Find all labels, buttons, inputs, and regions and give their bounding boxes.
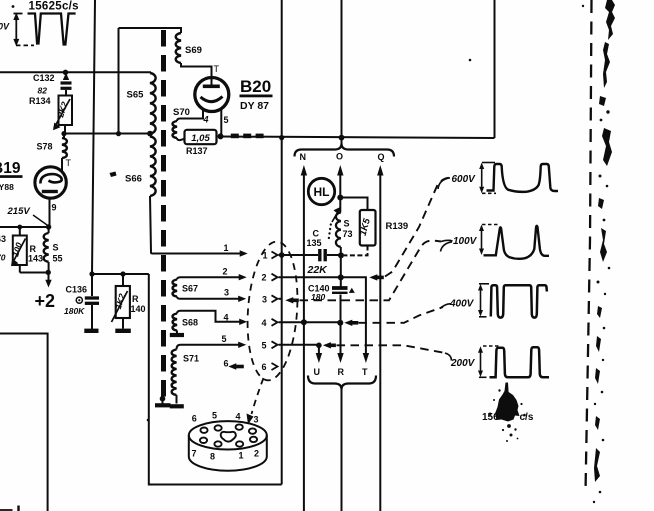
- node row2 O line: [338, 274, 344, 280]
- wire Q line: [379, 176, 381, 511]
- socket center key: [221, 432, 236, 442]
- waveform 400V trace: [491, 285, 547, 317]
- svg-text:R: R: [338, 367, 345, 377]
- svg-text:S: S: [53, 243, 59, 253]
- capacitor C140 polarity triangle: [349, 288, 355, 293]
- arrowhead +2 down: [45, 280, 51, 288]
- wire O R line upper: [339, 176, 341, 213]
- ground bar core: [155, 403, 171, 407]
- waveform 15625c/s top-left: [28, 14, 76, 45]
- svg-text:1: 1: [224, 243, 229, 253]
- svg-text:4: 4: [203, 115, 209, 125]
- resistor R140 leads: [122, 274, 124, 329]
- svg-text:C: C: [313, 229, 320, 239]
- svg-text:O: O: [336, 152, 343, 162]
- svg-text:DY 87: DY 87: [240, 100, 269, 112]
- arrowhead N up: [301, 165, 307, 176]
- waveform 200V bracket: [479, 346, 499, 377]
- arrowhead R143 pot: [11, 259, 19, 267]
- node C132 junction: [63, 70, 68, 75]
- arrowhead 200V bracket: [478, 346, 483, 353]
- svg-text:200V: 200V: [450, 358, 476, 369]
- waveform 600V label hook: [438, 178, 450, 189]
- inductor S73: [336, 213, 341, 247]
- ground bar C136: [84, 329, 98, 333]
- svg-text:N: N: [300, 152, 307, 162]
- arrowhead C132 up: [63, 73, 69, 80]
- svg-text:R134: R134: [29, 96, 51, 106]
- inductor S55: [44, 233, 49, 262]
- wire vertical x341.5: [341, 0, 343, 144]
- wire row4: [279, 321, 341, 323]
- svg-text:9: 9: [52, 203, 57, 213]
- svg-text:2: 2: [223, 267, 228, 277]
- node core bottom: [160, 396, 166, 402]
- S73 adjust arrow shaft: [332, 210, 339, 222]
- svg-text:70: 70: [0, 253, 6, 263]
- tube B19 anode bar: [42, 190, 58, 193]
- waveform 100V label hook: [441, 242, 453, 252]
- waveform 100V trace: [484, 226, 550, 259]
- label 215V pointer: [33, 215, 49, 226]
- resistor R134: [59, 96, 73, 126]
- svg-text:6: 6: [262, 362, 267, 372]
- wire 1K5 bottom: [344, 246, 368, 256]
- bottom-left corner box fragment: [0, 509, 13, 511]
- wire row3 stub: [279, 298, 282, 300]
- waveform 600V bracket: [482, 163, 496, 194]
- svg-text:3: 3: [262, 294, 267, 304]
- wire row5: [279, 345, 319, 354]
- node R134 bottom: [61, 131, 66, 136]
- scan speck mid: [147, 419, 150, 422]
- svg-text:4: 4: [236, 412, 241, 422]
- svg-text:100V: 100V: [453, 236, 478, 247]
- arrowhead bracket top-left up: [13, 13, 19, 21]
- inductor S67: [173, 280, 178, 297]
- scan speck left of S66: [110, 172, 117, 178]
- svg-text:1,05: 1,05: [191, 133, 210, 144]
- svg-text:U: U: [314, 367, 321, 377]
- arrowhead pointer row5 left: [323, 342, 331, 348]
- arrowhead bracket top-left down: [13, 39, 19, 47]
- svg-text:2K2: 2K2: [55, 100, 69, 119]
- wire row4 S68 top jog: [181, 311, 240, 322]
- svg-text:400V: 400V: [449, 299, 475, 310]
- brace U R T: [308, 376, 376, 390]
- waveform 600V trace: [487, 164, 559, 192]
- wire row2 S67 top: [181, 276, 240, 278]
- svg-text:6: 6: [192, 414, 197, 424]
- svg-text:600V: 600V: [452, 174, 477, 185]
- scan speck top-left: [12, 5, 15, 8]
- lamp HL: [308, 178, 334, 204]
- arrowhead R134 pot: [53, 123, 61, 131]
- arrowhead row2 right: [239, 274, 247, 280]
- wire S71 bottom: [176, 395, 178, 404]
- wire vertical x281.7: [281, 0, 283, 485]
- ink blot 15625: [495, 383, 520, 422]
- ground bar S68: [170, 333, 184, 337]
- ink blot splatter dots: [489, 413, 492, 416]
- svg-text:1: 1: [239, 451, 244, 461]
- svg-text:6: 6: [224, 359, 229, 369]
- ground bar S71: [170, 404, 184, 408]
- tube B20 anode bar: [203, 85, 220, 89]
- inductor S70: [173, 121, 178, 138]
- arrowhead S73 adjust: [334, 207, 341, 215]
- svg-text:5: 5: [222, 334, 227, 344]
- svg-text:156: 156: [482, 412, 499, 423]
- ground bar R140: [115, 329, 131, 333]
- svg-text:180: 180: [311, 292, 325, 302]
- node row4 O line: [337, 320, 343, 326]
- svg-text:5: 5: [262, 340, 267, 350]
- dashed pointer 200V: [337, 345, 449, 353]
- wire row1 right of oval: [279, 254, 319, 256]
- arrow +2 shaft: [48, 273, 50, 282]
- svg-text:1: 1: [263, 251, 268, 261]
- arrowhead R down: [337, 353, 343, 363]
- arrowhead pointer row4 left: [344, 320, 352, 326]
- waveform 400V bracket: [479, 284, 489, 317]
- svg-text:215V: 215V: [7, 206, 31, 217]
- arrowhead row1 right: [240, 250, 248, 256]
- wire R134 to node: [64, 125, 66, 134]
- node R137 right pin5: [218, 133, 224, 139]
- svg-text:c/s: c/s: [520, 412, 534, 423]
- node HL bottom O line: [337, 195, 343, 201]
- arrowhead socket pointer: [247, 414, 254, 425]
- tube B20 pin5 lead: [220, 108, 222, 137]
- svg-text:3: 3: [254, 415, 259, 425]
- svg-text:T: T: [362, 367, 368, 377]
- svg-text:5: 5: [212, 411, 217, 421]
- capacitor C136: [91, 274, 93, 296]
- arrowhead Q up: [377, 165, 383, 176]
- svg-text:C136: C136: [66, 285, 88, 295]
- node x281.7 y137.6: [279, 135, 284, 140]
- svg-text:HL: HL: [314, 185, 330, 199]
- node row1 O line: [338, 252, 344, 258]
- tube B19 cathode curl: [40, 174, 61, 183]
- svg-text:S68: S68: [182, 318, 198, 328]
- waveform 100V bracket: [482, 225, 500, 252]
- svg-text:8: 8: [210, 452, 215, 462]
- capacitor C132: [61, 83, 72, 88]
- node y227 x48.6: [46, 224, 51, 229]
- svg-text:R137: R137: [186, 146, 208, 156]
- arrowhead T down: [363, 353, 369, 363]
- arrow row6 left: [228, 363, 236, 369]
- inductor S68: [173, 314, 178, 331]
- dashed pointer 600V: [385, 178, 450, 277]
- wire vertical x494.5: [494, 0, 496, 138]
- svg-text:0V: 0V: [0, 22, 10, 32]
- wire bottom-left corner: [0, 334, 48, 511]
- arrowhead row3 right: [238, 296, 246, 302]
- svg-text:3: 3: [224, 288, 229, 298]
- svg-text:4: 4: [224, 313, 229, 323]
- inductor S78: [62, 138, 67, 158]
- wire top-left horizontal to S65: [0, 71, 151, 73]
- node R140 top: [120, 271, 125, 276]
- resistor R140: [116, 286, 130, 318]
- wire top box to S69: [119, 28, 182, 33]
- arrowhead 600V bracket: [479, 163, 484, 170]
- svg-text:S70: S70: [173, 107, 190, 118]
- page edge marks cluster: [605, 0, 615, 40]
- node row1 x281.7: [279, 252, 285, 258]
- wire B20 pin4 to S70: [177, 109, 203, 122]
- svg-text:4: 4: [262, 318, 267, 328]
- wire O R line lower: [340, 295, 342, 354]
- svg-text:140: 140: [131, 304, 146, 314]
- wire row5 S71 top: [181, 344, 239, 346]
- resistor R143 leads: [20, 227, 49, 273]
- inductor S65: [150, 73, 156, 134]
- svg-text:S69: S69: [185, 45, 202, 56]
- node S65 bottom: [147, 131, 153, 137]
- svg-text:82: 82: [38, 86, 48, 96]
- capacitor C135: [320, 249, 325, 261]
- svg-text:R: R: [132, 294, 139, 304]
- wire vertical from top edge x95: [92, 0, 95, 274]
- inductor S66: [150, 137, 156, 196]
- connector oval dashed: [243, 240, 302, 382]
- wire left y227: [0, 226, 50, 228]
- wire horizontal y133.5: [64, 133, 150, 135]
- node S55 bottom: [46, 270, 51, 275]
- dashed pointer oval to socket: [252, 378, 264, 414]
- svg-text:S71: S71: [183, 354, 199, 364]
- resistor 1K5: [360, 210, 376, 246]
- svg-text:EY88: EY88: [0, 182, 14, 192]
- svg-text:22K: 22K: [307, 264, 329, 276]
- wire brace stem bottom: [341, 390, 343, 511]
- core ground lead: [162, 399, 164, 404]
- svg-text:135: 135: [307, 238, 322, 248]
- tube B19 envelope: [35, 167, 66, 198]
- transformer core dashed: [161, 30, 166, 398]
- arrowhead row4 right: [239, 319, 247, 325]
- wire row3 S67 bottom: [181, 298, 239, 300]
- svg-text:S: S: [344, 219, 350, 229]
- node row4 N line: [301, 319, 307, 325]
- svg-text:15625c/s: 15625c/s: [29, 1, 79, 13]
- svg-text:R: R: [30, 244, 37, 254]
- socket box bottom: [149, 274, 282, 485]
- svg-text:T: T: [66, 158, 72, 168]
- svg-text:R139: R139: [386, 221, 409, 232]
- tube B20 envelope: [195, 78, 229, 112]
- page edge dashed line: [586, 0, 592, 492]
- arrowhead pointer row3 left: [285, 297, 293, 303]
- node C136 top: [89, 271, 94, 276]
- svg-text:B20: B20: [240, 77, 271, 96]
- socket top ellipse: [189, 421, 267, 449]
- svg-text:43: 43: [0, 234, 6, 244]
- node row5 corner: [316, 343, 322, 349]
- wire S66 elbow to row1: [150, 196, 240, 254]
- svg-text:180K: 180K: [64, 306, 85, 316]
- waveform 200V trace: [490, 347, 550, 377]
- socket pin holes: [200, 424, 257, 446]
- svg-text:B19: B19: [0, 160, 21, 177]
- svg-text:Q: Q: [378, 152, 385, 162]
- arrowhead row5 right: [238, 342, 246, 348]
- capacitor C140: [332, 288, 348, 293]
- resistor R143: [13, 236, 27, 266]
- svg-text:S66: S66: [125, 174, 142, 185]
- svg-text:73: 73: [343, 229, 353, 239]
- svg-text:5: 5: [224, 115, 229, 125]
- wire vertical x118.5 down: [118, 28, 120, 134]
- node y227 x19.8: [17, 225, 22, 230]
- svg-text:2: 2: [262, 273, 267, 283]
- wire 1K5 top: [340, 198, 367, 211]
- socket bottom arc: [189, 457, 267, 471]
- arrowhead pointer row2 left: [369, 274, 377, 280]
- wire S69 to B20 top: [181, 63, 212, 85]
- tube B19 pin 9 lead: [49, 199, 51, 228]
- wire R137 to right long: [221, 137, 495, 139]
- contact chevrons 1-6: [272, 252, 278, 371]
- arrowhead 400V bracket: [478, 284, 483, 291]
- svg-text:S78: S78: [37, 142, 53, 152]
- socket body sides: [189, 435, 267, 456]
- arrowhead O up: [337, 165, 343, 176]
- arrowhead 100V bracket: [479, 225, 484, 232]
- measurement bracket 0V: [14, 14, 35, 46]
- svg-text:T: T: [214, 64, 220, 74]
- svg-text:S67: S67: [182, 284, 198, 294]
- wire N line: [303, 176, 305, 511]
- wire C136 node y274: [92, 273, 149, 275]
- dashed pointer 400V: [359, 307, 444, 323]
- brace N O Q: [295, 144, 395, 157]
- wire break dashes right of R137: [231, 134, 239, 139]
- svg-text:C132: C132: [33, 73, 55, 83]
- inductor S69: [176, 33, 181, 63]
- node x118 y133.5: [116, 131, 121, 136]
- wire O line mid: [340, 247, 342, 287]
- svg-text:2: 2: [254, 449, 259, 459]
- resistor R137: [185, 130, 217, 144]
- inductor S71: [172, 350, 177, 396]
- S73 core dots: [329, 225, 331, 241]
- symbol adjust C136: [76, 297, 82, 303]
- svg-text:+2: +2: [35, 291, 56, 311]
- svg-text:7: 7: [192, 449, 197, 459]
- svg-text:55: 55: [53, 254, 63, 264]
- dashed pointer 100V: [300, 241, 442, 301]
- wire S70 to R137: [177, 138, 185, 140]
- node x341.5 y137.6: [339, 135, 345, 141]
- tube B20 cathode: [201, 97, 223, 102]
- wire row2: [279, 277, 366, 353]
- svg-text:S65: S65: [127, 90, 145, 101]
- wire C132 to R134: [65, 90, 67, 96]
- arrowhead U down: [316, 353, 322, 363]
- svg-text:143: 143: [28, 254, 43, 264]
